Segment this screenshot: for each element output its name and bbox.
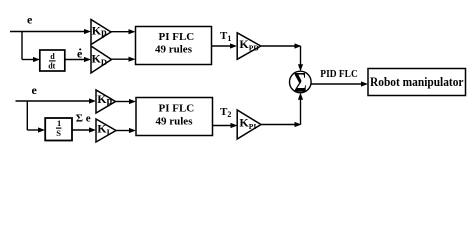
svg-text:dt: dt: [48, 61, 55, 70]
wire PI FLC 2 to KPI: [213, 123, 238, 128]
gain Kp (top): [91, 20, 111, 45]
svg-text:KD: KD: [92, 52, 107, 68]
wire PI FLC 1 to KPD: [212, 43, 238, 48]
wire Kp bottom to PI FLC 2: [116, 99, 137, 104]
svg-text:Robot manipulator: Robot manipulator: [370, 74, 464, 89]
summing junction: [290, 68, 312, 100]
svg-text:T2: T2: [220, 106, 231, 119]
svg-text:1: 1: [57, 118, 61, 128]
wire top branch vertical: [21, 32, 23, 60]
wire Kp to PI FLC 1: [111, 29, 136, 34]
svg-text:Kp: Kp: [97, 92, 112, 107]
svg-text:PI FLC: PI FLC: [159, 103, 195, 115]
svg-text:PID FLC: PID FLC: [320, 68, 358, 80]
wire corner down into summer: [298, 46, 303, 71]
wire 1/S to KI: [72, 127, 96, 132]
wire top input horizontal: [10, 29, 91, 34]
node e-dot label: [77, 46, 83, 60]
block PI FLC 2 (49 rules): [136, 98, 213, 136]
svg-text:PI FLC: PI FLC: [159, 31, 195, 43]
svg-text:T1: T1: [220, 30, 231, 43]
block 1/S (integrator): [45, 118, 72, 141]
wire KD to PI FLC 1: [112, 57, 136, 62]
svg-text:Σ e: Σ e: [76, 113, 91, 125]
gain KPD: [237, 33, 261, 60]
wire KPD output to corner: [261, 43, 302, 48]
wire KPI output to corner: [261, 122, 302, 127]
wire bottom branch vertical: [26, 101, 28, 130]
svg-text:KPI: KPI: [239, 116, 256, 132]
gain KD: [91, 46, 112, 73]
wire KI to PI FLC 2: [116, 128, 136, 133]
svg-text:Kp: Kp: [92, 24, 107, 39]
svg-text:49 rules: 49 rules: [156, 115, 194, 127]
wire d/dt to KD: [65, 57, 91, 62]
svg-text:e: e: [32, 83, 38, 97]
wire bottom input horizontal: [16, 98, 97, 103]
block d/dt (differentiator): [40, 50, 65, 71]
block Robot manipulator: [368, 69, 466, 96]
gain KI: [96, 119, 116, 142]
gain Kp (bottom): [96, 90, 116, 113]
svg-text:d: d: [50, 52, 55, 61]
svg-text:Σ: Σ: [294, 68, 307, 100]
wire corner up into summer: [298, 93, 303, 125]
wire summer to robot manipulator: [311, 81, 368, 86]
svg-text:e: e: [27, 13, 33, 27]
gain KPI: [237, 110, 261, 139]
svg-text:KI: KI: [97, 122, 110, 138]
wire branch to d/dt: [22, 57, 40, 62]
svg-text:S: S: [56, 128, 61, 138]
svg-text:49 rules: 49 rules: [155, 44, 193, 56]
wire branch to integrator: [27, 127, 45, 132]
block PI FLC 1 (49 rules): [136, 27, 212, 65]
